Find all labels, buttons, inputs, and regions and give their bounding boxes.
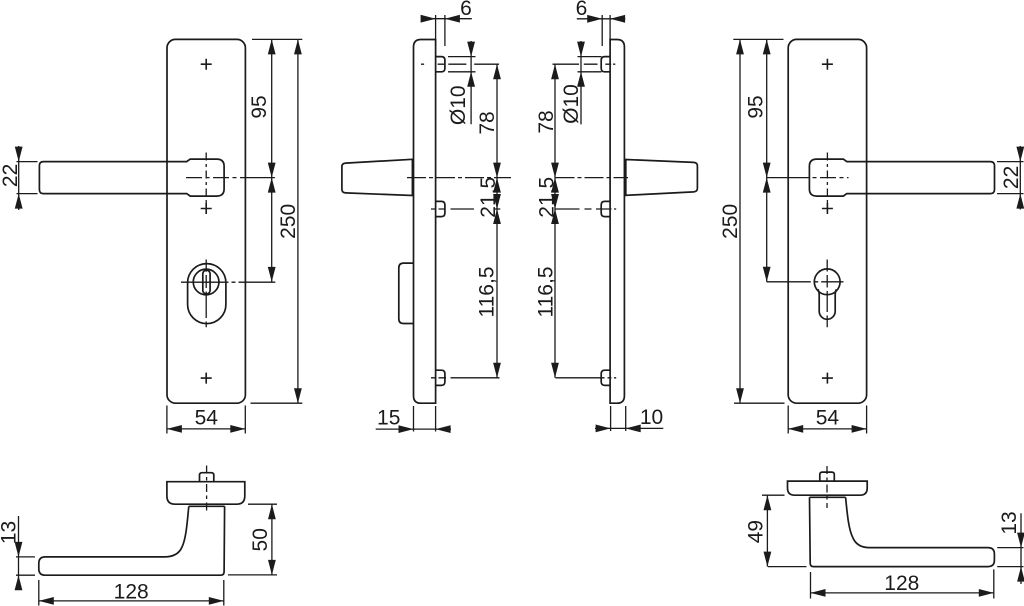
dimension 15: [376, 406, 451, 433]
handle profile: [342, 159, 413, 195]
svg-text:6: 6: [460, 0, 472, 20]
hub horizontal centerline right: [767, 177, 849, 179]
svg-text:116,5: 116,5: [535, 267, 558, 318]
screw mark middle: [201, 203, 212, 214]
dimension 116,5: [476, 209, 501, 378]
svg-text:Ø10: Ø10: [560, 84, 583, 124]
boss middle centerline: [431, 208, 500, 210]
svg-text:78: 78: [535, 110, 558, 133]
dimension 95: [248, 39, 302, 177]
svg-text:78: 78: [476, 111, 499, 134]
boss bottom centerline: [431, 377, 500, 379]
boss top centerline: [421, 63, 499, 65]
oval cylinder outer: [188, 264, 226, 324]
dimension 22 left: [0, 146, 38, 210]
dimension 54 right: [788, 406, 866, 434]
screw mark top right: [822, 59, 833, 70]
spindle centerline: [206, 466, 208, 511]
boss middle centerline mirrored: [556, 208, 617, 210]
dimension handle-to-cylinder right (unlabeled): [763, 178, 771, 282]
dimension 6 mirrored: [576, 0, 626, 46]
svg-text:128: 128: [884, 572, 919, 595]
dimension 78 mirrored: [535, 64, 559, 177]
screw mark top: [201, 59, 212, 70]
dimension 50: [228, 504, 277, 575]
dimension 49: [744, 495, 806, 566]
svg-text:95: 95: [248, 95, 271, 118]
fixing boss bottom: [436, 370, 445, 385]
svg-text:13: 13: [0, 521, 20, 544]
PZ keyhole slot: [818, 289, 836, 319]
svg-text:50: 50: [249, 528, 272, 551]
screw mark bottom right: [822, 373, 833, 384]
svg-text:54: 54: [816, 406, 840, 429]
lever with hub right: [809, 159, 994, 196]
cylinder vertical centerline: [205, 260, 207, 328]
spindle stub right: [820, 472, 835, 481]
hub vertical centerline right: [826, 153, 828, 205]
handle top view outline: [39, 506, 225, 575]
hub vertical centerline: [205, 153, 207, 205]
keyway slot: [203, 270, 210, 294]
svg-text:15: 15: [377, 407, 400, 430]
dimension 250: [251, 39, 303, 403]
dimension 21,5 mirrored: [536, 177, 559, 218]
boss top centerline mirrored: [553, 63, 616, 65]
dimension 250 right: [719, 39, 784, 403]
fixing boss middle: [436, 201, 445, 216]
svg-text:Ø10: Ø10: [447, 85, 470, 125]
dimension diameter 10 mirrored: [560, 41, 601, 124]
dimension 78: [476, 64, 501, 177]
dimension 6: [421, 0, 472, 46]
cylinder housing bump: [399, 263, 414, 323]
plate profile: [414, 40, 436, 404]
lever with hub: [39, 159, 224, 196]
svg-text:54: 54: [195, 406, 219, 429]
backplate outline: [167, 39, 245, 403]
spindle centerline right: [826, 466, 828, 508]
hub horizontal centerline / 95 extension: [186, 177, 275, 179]
dimension 21,5: [477, 177, 501, 218]
dimension 10 bottom: [595, 406, 663, 432]
screw mark bottom: [201, 373, 212, 384]
handle centerline: [407, 177, 511, 179]
handle profile mirrored: [626, 160, 698, 196]
dimension 13 right: [997, 511, 1024, 584]
svg-text:22: 22: [1000, 166, 1023, 189]
svg-text:128: 128: [114, 580, 149, 603]
cylinder core circle: [193, 269, 219, 295]
dimension 128 left: [39, 580, 224, 606]
svg-text:250: 250: [277, 204, 300, 239]
handle centerline mirrored: [556, 177, 629, 179]
cylinder horizontal centerline: [181, 281, 275, 283]
handle top view outline right: [810, 497, 995, 566]
keyhole horizontal centerline: [767, 281, 844, 283]
dimension 54: [167, 406, 245, 434]
dimension 116,5 mirrored: [535, 209, 559, 378]
dimension 128 right: [811, 569, 994, 598]
svg-text:95: 95: [744, 95, 767, 118]
svg-text:49: 49: [744, 520, 767, 543]
backplate outline right: [788, 39, 866, 403]
fixing boss top: [436, 57, 445, 72]
svg-text:10: 10: [640, 406, 663, 429]
keyhole vertical centerline: [826, 260, 828, 328]
screw mark middle right: [822, 203, 833, 214]
plate profile mirrored: [610, 40, 624, 404]
flange top view right: [788, 481, 868, 495]
svg-text:13: 13: [998, 511, 1021, 534]
fixing boss top mirrored: [601, 57, 610, 72]
dimension 13 left: [0, 516, 35, 590]
fixing boss middle mirrored: [601, 201, 610, 216]
svg-text:6: 6: [576, 0, 588, 20]
boss bottom centerline mirrored: [556, 377, 617, 379]
dimension 22 right: [997, 146, 1024, 210]
fixing boss bottom mirrored: [601, 370, 610, 385]
svg-text:22: 22: [0, 164, 22, 187]
dimension diameter 10: [447, 41, 476, 125]
PZ keyhole circle: [814, 269, 840, 295]
dimension handle-to-cylinder (unlabeled): [268, 178, 276, 282]
svg-text:116,5: 116,5: [476, 267, 499, 318]
dimension 95 right: [733, 39, 783, 177]
spindle stub: [200, 473, 214, 482]
flange top view: [167, 482, 245, 505]
svg-text:250: 250: [719, 204, 742, 239]
